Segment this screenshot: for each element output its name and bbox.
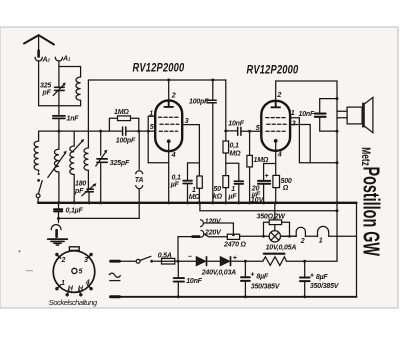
resistor 0.1M anode load — [225, 131, 227, 141]
node bus/L4 — [73, 201, 76, 204]
svg-text:2: 2 — [61, 256, 66, 264]
wire 1M to bus — [198, 188, 200, 203]
wire fuse to selector — [178, 237, 193, 262]
svg-text:–: – — [188, 253, 192, 260]
fuse 0.5A — [162, 258, 175, 264]
lamp 10V 0.05A — [269, 231, 280, 242]
svg-text:Ω: Ω — [282, 185, 289, 192]
capacitor 0.1uF ground — [58, 203, 60, 219]
node fuse/selector/10nF — [177, 260, 180, 263]
label tube V2 type RV12P2000 — [247, 63, 299, 76]
svg-text:Metz: Metz — [358, 147, 371, 166]
resistor 1M screen — [197, 176, 202, 188]
socket key notch — [69, 247, 79, 251]
svg-text:350/385V: 350/385V — [310, 283, 340, 290]
antenna — [24, 35, 54, 44]
capacitor 10nF coupling plates — [238, 127, 241, 135]
svg-text:1: 1 — [231, 186, 235, 193]
wire switch to fuse — [152, 260, 162, 262]
arrow variable 325pF — [53, 84, 64, 95]
label Postillon GW — [358, 167, 384, 257]
wire right frame — [356, 203, 358, 297]
wire heater to dropper — [240, 235, 264, 237]
svg-text:10V: 10V — [251, 196, 265, 204]
wire TA to ground node — [59, 189, 140, 219]
wire to switch — [120, 260, 137, 262]
svg-text:325pF: 325pF — [110, 160, 130, 167]
wire screen RC top — [188, 163, 200, 180]
svg-text:10nF: 10nF — [299, 111, 315, 118]
svg-text:A2: A2 — [42, 57, 51, 64]
node coupling — [224, 129, 227, 132]
resistor 50k — [223, 176, 229, 188]
wire grid top line — [39, 130, 156, 132]
svg-text:8µF: 8µF — [256, 274, 269, 281]
svg-text:0,1µF: 0,1µF — [66, 208, 84, 215]
speck mark — [19, 250, 21, 252]
grid1 V1 dashed — [159, 116, 179, 118]
grid1 V2 dashed — [266, 117, 287, 119]
node transformer top — [336, 97, 339, 100]
svg-text:325: 325 — [40, 83, 51, 90]
svg-text:pF: pF — [74, 188, 84, 195]
resistor 350ohm 2W shunt — [264, 222, 297, 236]
svg-text:3: 3 — [185, 117, 189, 125]
resistor 1M grid leak V2 — [249, 131, 251, 203]
pin 3 lead V2 — [290, 125, 310, 163]
mains prong N — [111, 295, 120, 298]
svg-text:2: 2 — [300, 238, 305, 245]
wire A2 to tank bottom — [39, 61, 81, 106]
node bus/180pF — [87, 201, 90, 204]
cathode V2 — [274, 139, 278, 143]
node grid-line/1nF — [57, 130, 60, 133]
arrow trimmer L4 — [73, 141, 82, 151]
node bottom/8uF2 — [303, 295, 306, 298]
wire speaker stubs — [337, 111, 347, 118]
node bus/100pF — [211, 201, 214, 204]
node bus/500ohm — [274, 201, 277, 204]
pin 4 cathode lead V2 — [275, 143, 277, 176]
socket pin 5 center — [72, 268, 77, 273]
switch wave-change contact — [38, 173, 40, 175]
capacitor 100pF anode bypass — [212, 80, 214, 203]
variable capacitor 180pF plates — [85, 189, 93, 192]
node bus/cathode V1 — [167, 201, 170, 204]
arrow variable 325pF — [96, 152, 106, 166]
svg-text:8µF: 8µF — [316, 274, 329, 281]
node first filter cap — [244, 260, 247, 263]
wire tank to 1nF — [58, 106, 60, 116]
earth connector socket — [58, 218, 60, 222]
ground — [48, 238, 68, 240]
svg-text:RV12P2000: RV12P2000 — [133, 61, 185, 74]
tube V2 RV12P2000 envelope — [261, 101, 290, 151]
main chassis bus — [38, 202, 356, 204]
grid3 V1 dashed — [159, 130, 177, 132]
wire anode V2 down — [336, 81, 338, 261]
capacitor 1uF — [226, 163, 239, 203]
capacitor 100pF grid series plates — [123, 127, 126, 135]
anode plate V1 — [164, 100, 173, 107]
svg-text:0,5A: 0,5A — [158, 252, 172, 259]
variable capacitor 325pF tank plates — [55, 87, 65, 90]
resistor smoothing zigzag — [263, 257, 287, 266]
wire heater to lamp — [281, 235, 297, 237]
socket A1 — [55, 57, 62, 61]
bar over zigzag — [264, 253, 285, 255]
svg-text:2: 2 — [276, 91, 281, 99]
node bus/1uF — [237, 201, 240, 204]
grid2 V2 dashed — [267, 123, 287, 125]
wire 180pF to bus — [88, 192, 90, 203]
pin 2 anode lead V1 — [168, 80, 170, 100]
label faint mark — [26, 270, 33, 272]
transformer/speaker box — [347, 107, 362, 124]
capacitor 0.1uF screen plates — [183, 181, 192, 184]
wire 1nF to grid line — [58, 119, 60, 131]
node bus/speaker-line — [335, 201, 338, 204]
pin 2 anode lead V2 — [276, 81, 337, 101]
node B+ line — [336, 209, 339, 212]
svg-text:100pF: 100pF — [116, 138, 136, 145]
label Metz — [358, 147, 371, 166]
grid2 V1 dashed — [160, 123, 179, 125]
speaker cone — [365, 97, 373, 132]
svg-text:+: + — [250, 272, 254, 279]
socket pin 3 — [87, 254, 91, 258]
svg-text:4: 4 — [85, 278, 90, 286]
pin 1 lead V1 — [148, 116, 155, 163]
svg-text:kΩ: kΩ — [213, 194, 223, 201]
capacitor 8uF first — [244, 261, 246, 297]
wire screens to B+ — [299, 162, 337, 164]
wire 120V tap — [204, 223, 233, 234]
node 120V tap — [232, 233, 235, 236]
node rail/pin2 — [167, 79, 170, 82]
socket 220V — [201, 230, 204, 237]
svg-text:+: + — [265, 173, 269, 180]
node 350ohm right — [288, 235, 291, 238]
svg-text:µF: µF — [170, 182, 180, 189]
svg-text:TA: TA — [135, 177, 144, 184]
node bottom/10nF — [177, 295, 180, 298]
svg-text:240V,0,03A: 240V,0,03A — [201, 270, 236, 277]
node bottom/8uF1 — [244, 295, 247, 298]
svg-text:1: 1 — [192, 187, 196, 194]
svg-text:1MΩ: 1MΩ — [114, 109, 129, 116]
wire rail down to coupling node — [225, 80, 227, 131]
wire B+ line — [200, 203, 337, 211]
diode D1 240V 0.03A — [196, 257, 205, 266]
arrow variable 180pF — [82, 185, 94, 196]
resistor 1M grid leak — [109, 118, 138, 131]
node rail/100pF — [211, 79, 214, 82]
svg-text:1: 1 — [291, 109, 295, 117]
node bus/325pF — [99, 201, 102, 204]
svg-text:1: 1 — [61, 279, 65, 287]
wire zigzag to B+ riser — [286, 260, 337, 262]
svg-text:A1: A1 — [62, 56, 71, 63]
svg-text:RV12P2000: RV12P2000 — [247, 63, 299, 76]
svg-text:3: 3 — [292, 120, 296, 128]
socket pin 2 — [56, 254, 60, 258]
wire 10nF to grid V2 — [241, 130, 261, 132]
svg-text:1MΩ: 1MΩ — [254, 157, 269, 164]
node 350ohm left — [262, 235, 265, 238]
svg-text:pF: pF — [42, 90, 52, 97]
svg-text:120V: 120V — [205, 218, 222, 225]
svg-text:350Ω,2W: 350Ω,2W — [257, 213, 287, 220]
wire D2 to filter node — [231, 260, 263, 262]
wire 325pF branch — [100, 131, 102, 203]
tank coil L1 — [76, 77, 81, 106]
mains prong L — [111, 260, 120, 263]
node ground/TA — [57, 217, 60, 220]
coil L4 — [70, 131, 74, 203]
svg-text:4: 4 — [277, 151, 282, 159]
capacitor 10nF mains — [177, 261, 179, 297]
earth plug pin — [55, 230, 58, 237]
svg-text:4: 4 — [171, 151, 176, 159]
resistor 500 ohm cathode — [273, 175, 280, 187]
anode rail tube1 — [88, 79, 225, 81]
jack TA phono — [138, 131, 140, 169]
pin 4 cathode lead V1 to bus — [168, 143, 170, 203]
svg-text:Sockelschaltung: Sockelschaltung — [49, 298, 98, 307]
tube socket diagram circle — [53, 251, 95, 293]
svg-text:350/385V: 350/385V — [251, 284, 281, 291]
capacitor 1nF — [53, 116, 65, 119]
svg-text:+: + — [233, 255, 237, 262]
svg-text:2470 Ω: 2470 Ω — [223, 241, 247, 248]
svg-text:0,1: 0,1 — [230, 143, 239, 150]
svg-text:180: 180 — [75, 181, 86, 188]
speaker bar — [362, 103, 365, 128]
svg-text:10nF: 10nF — [186, 278, 202, 285]
wire lamp to chassis bus — [274, 203, 276, 231]
cathode V1 — [167, 139, 171, 143]
switch lever — [38, 181, 42, 194]
antenna plug pin A2 — [37, 51, 40, 57]
heater winding 2 — [296, 227, 305, 236]
resistor 2470 ohm dropper — [227, 234, 239, 239]
svg-text:H: H — [68, 285, 74, 293]
wire grid return to cathode — [148, 162, 169, 164]
diode D2 240V 0.03A — [220, 257, 229, 266]
wire coupling to 10nF — [226, 130, 237, 132]
node grid-line/325pF — [99, 130, 102, 133]
svg-text:100pF: 100pF — [189, 99, 209, 106]
wire A1 to tank top — [59, 61, 81, 77]
svg-text:µF: µF — [228, 193, 238, 200]
node transformer bottom — [336, 130, 339, 133]
pin 3 lead V1 — [182, 125, 199, 176]
socket pin H left — [67, 290, 69, 295]
wire antenna down-lead — [38, 35, 40, 50]
wire tank cap branch — [58, 67, 60, 106]
svg-text:+: + — [310, 273, 314, 280]
node bus/0.1uF-gnd — [57, 201, 60, 204]
label AC symbol — [109, 273, 121, 281]
node bus/0.1uF — [186, 201, 189, 204]
node screens/B+ — [336, 161, 339, 164]
svg-text:1: 1 — [149, 110, 153, 118]
svg-text:10nF: 10nF — [228, 121, 244, 128]
node bus/20uF — [262, 201, 265, 204]
wire L2 to bus — [58, 177, 60, 203]
arrow variable L2 — [48, 154, 65, 178]
svg-text:3: 3 — [84, 256, 88, 264]
voltage selector plug pin — [193, 235, 200, 238]
svg-text:50: 50 — [214, 186, 222, 193]
coil L5 feedback — [84, 80, 88, 189]
socket 120V — [201, 220, 204, 227]
socket A2 — [35, 57, 42, 61]
socket pin H right — [79, 290, 81, 295]
wire 0.1uF to bus — [187, 184, 189, 203]
capacitor 10nF tone loop — [320, 99, 337, 132]
coil L3 wave band — [34, 131, 39, 172]
label tube V1 type RV12P2000 — [133, 61, 185, 74]
svg-text:220V: 220V — [204, 230, 222, 237]
svg-text:MΩ: MΩ — [189, 194, 201, 201]
grid3 V2 dashed — [266, 130, 285, 132]
pin 1 lead V2 — [290, 118, 299, 163]
bottom mains bus — [111, 296, 357, 298]
svg-text:0,1: 0,1 — [172, 174, 181, 181]
node bus/1M-screen — [198, 201, 201, 204]
node bus/50k — [224, 201, 227, 204]
wire D1-D2 — [207, 260, 221, 262]
wire switch to bus — [37, 198, 39, 203]
svg-text:2: 2 — [171, 92, 176, 100]
capacitor 8uF second — [304, 261, 306, 297]
wire heater — [305, 235, 317, 237]
coil L2 antenna coupling — [54, 131, 59, 177]
svg-text:Postillon GW: Postillon GW — [358, 167, 384, 257]
wire heater from frame — [329, 235, 357, 237]
svg-text:MΩ: MΩ — [230, 151, 242, 158]
anode plate V2 — [271, 101, 280, 108]
node 1M/TA — [137, 130, 140, 133]
svg-text:1nF: 1nF — [67, 116, 80, 123]
node bus/L2 — [57, 201, 60, 204]
socket pin 4 — [87, 285, 91, 289]
node pin1/pin5 — [147, 130, 150, 133]
variable capacitor 325pF plates — [97, 159, 107, 162]
svg-text:10V,0,05A: 10V,0,05A — [266, 245, 297, 252]
socket pin 1 — [56, 285, 60, 289]
node bus/1M-V2 — [248, 201, 251, 204]
svg-text:H: H — [78, 285, 84, 293]
capacitor 20uF cathode bypass — [264, 164, 276, 203]
switch mains — [136, 259, 140, 263]
tube V1 RV12P2000 envelope — [155, 100, 182, 151]
svg-text:1: 1 — [319, 238, 323, 245]
node second filter cap — [303, 260, 306, 263]
heater winding 1 — [318, 226, 329, 236]
